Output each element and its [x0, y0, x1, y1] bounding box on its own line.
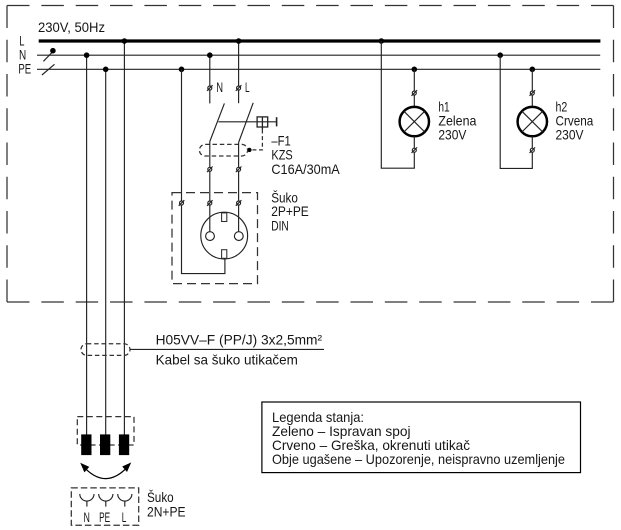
svg-text:230V: 230V — [556, 127, 585, 143]
plug pin N — [81, 434, 91, 455]
wire RCD N to socket — [209, 171, 211, 201]
svg-text:PE: PE — [18, 61, 31, 77]
wire N blade to lower terminal — [209, 142, 211, 168]
dashed linkage to trip coil — [252, 130, 262, 150]
lamp h1 top terminal — [412, 90, 418, 96]
socket X1 dashed box — [172, 193, 258, 284]
wire N to RCD — [209, 55, 211, 86]
actuator stem and tick — [276, 117, 278, 126]
enclosure dashed boundary (tester unit) — [7, 6, 614, 303]
wire below L terminal — [238, 90, 240, 103]
socket contact L — [118, 494, 132, 507]
cable marker (dashed stadium) — [81, 344, 130, 356]
svg-text:230V: 230V — [438, 127, 467, 143]
switch slash on N — [43, 49, 55, 61]
wire L blade to lower terminal — [238, 143, 240, 168]
junction L RCD — [236, 38, 242, 44]
svg-text:L: L — [122, 509, 127, 525]
leader line cable — [130, 348, 324, 350]
bus PE (earth) — [37, 68, 600, 70]
bus L (phase) — [39, 39, 601, 42]
svg-text:Obje ugašene – Upozorenje, nei: Obje ugašene – Upozorenje, neispravno uz… — [272, 451, 565, 467]
lamp h2 top terminal — [530, 90, 536, 96]
lamp h2 — [518, 107, 547, 136]
lamp h2 bottom terminal — [530, 147, 536, 153]
svg-text:H05VV–F (PP/J) 3x2,5mm²: H05VV–F (PP/J) 3x2,5mm² — [156, 332, 323, 348]
RCD F1 output terminal L — [236, 167, 242, 173]
lamp h1 bottom terminal — [412, 147, 418, 153]
test button box — [257, 117, 268, 130]
svg-text:N: N — [84, 509, 90, 525]
differential transformer (dashed stadium) — [199, 144, 247, 156]
junction PE lamp h1 — [412, 67, 418, 73]
wire L down to h1 bottom — [381, 41, 414, 168]
wire PE to h2 top — [531, 69, 533, 91]
wire N terminal to hole — [209, 205, 211, 232]
svg-text:L: L — [245, 79, 250, 95]
wire L feed to plug — [123, 41, 125, 436]
svg-text:C16A/30mA: C16A/30mA — [271, 161, 340, 177]
junction PE branch — [179, 67, 185, 73]
svg-text:N: N — [216, 79, 223, 95]
wire below N terminal — [209, 90, 211, 103]
junction PE lamp h2 — [530, 67, 536, 73]
switch blade L pole — [239, 103, 254, 143]
svg-text:KZS: KZS — [271, 146, 292, 162]
junction L feed — [122, 38, 128, 44]
linkage tie bar — [218, 121, 276, 123]
wire PE terminal down and around — [182, 205, 225, 274]
svg-text:2N+PE: 2N+PE — [147, 503, 186, 519]
RCD F1 input terminal L — [236, 85, 242, 91]
socket contact N — [80, 494, 94, 507]
socket terminal N — [207, 200, 213, 206]
svg-text:230V, 50Hz: 230V, 50Hz — [38, 19, 105, 35]
RCD F1 output terminal N — [207, 167, 213, 173]
switch blade N pole — [210, 103, 225, 141]
socket hole N — [206, 232, 215, 241]
plug pin L — [119, 434, 129, 455]
wall socket dashed box — [71, 488, 138, 525]
lamp h1 — [400, 107, 429, 136]
plug pin PE — [100, 434, 110, 455]
svg-text:DIN: DIN — [271, 218, 289, 234]
RCD F1 input terminal N — [207, 85, 213, 91]
wire PE feed to plug — [105, 69, 107, 436]
node dot on N slash — [50, 48, 56, 54]
legend box — [262, 402, 581, 473]
wire lamp h1 to bottom terminal — [413, 136, 415, 148]
wire RCD L to socket — [238, 171, 240, 201]
earth tab bottom — [222, 250, 227, 259]
socket contact PE — [99, 494, 113, 507]
wire N feed to plug — [86, 55, 88, 436]
rotation arrow — [80, 462, 131, 478]
junction N RCD — [207, 52, 213, 58]
wire terminal to lamp h1 — [413, 95, 415, 107]
svg-text:Kabel sa šuko utikačem: Kabel sa šuko utikačem — [156, 351, 298, 367]
wire L to RCD — [238, 41, 240, 86]
junction L lamp h1 — [379, 38, 385, 44]
plug dashed box — [77, 417, 134, 445]
wire PE to h1 top — [413, 69, 415, 91]
wire lamp h2 to bottom terminal — [531, 136, 533, 148]
earth tab top — [222, 213, 227, 222]
node dot trip coil — [247, 148, 251, 152]
socket face circle — [201, 212, 248, 259]
junction N feed — [84, 52, 90, 58]
bus N (neutral) — [37, 54, 600, 56]
wire N down to h2 bottom — [500, 55, 532, 168]
wire L terminal to hole — [238, 205, 240, 232]
socket terminal PE — [179, 200, 185, 206]
switch slash on PE — [42, 64, 55, 75]
junction PE feed — [103, 67, 109, 73]
junction N lamp h2 — [497, 52, 503, 58]
wire terminal to lamp h2 — [531, 95, 533, 107]
svg-text:PE: PE — [99, 509, 110, 525]
socket terminal L — [236, 200, 242, 206]
socket hole L — [234, 232, 243, 241]
wire PE to socket — [181, 69, 183, 201]
